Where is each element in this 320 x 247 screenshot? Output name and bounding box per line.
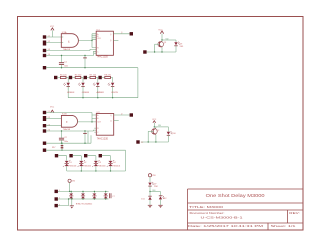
supply circle VDD column [148,174,156,183]
svg-text:PWR: PWR [154,186,159,188]
diode D10col [141,192,151,206]
svg-text:D11: D11 [141,198,144,200]
ground GND2 [83,130,87,143]
svg-text:74HC123D: 74HC123D [97,138,109,140]
connector pad X2-1 [43,111,46,114]
svg-text:Q: Q [110,34,112,36]
wire net C2 [46,125,61,127]
connector pad Y4 [99,154,102,157]
connector pad X1-3 [43,49,46,52]
connector pad X1-2 [43,41,46,46]
connector pad X2-6 [43,149,46,152]
junction [69,191,70,192]
svg-text:D9: D9 [180,44,182,46]
junction [154,51,155,52]
svg-text:C1: C1 [64,61,67,63]
svg-text:2.2: 2.2 [141,142,143,144]
supply VCC B [152,119,157,127]
resistor R6 [69,74,83,79]
wire net A2 [46,113,92,122]
svg-text:100n: 100n [64,141,68,143]
wire gate1 output [79,34,97,53]
resistor R5 [54,74,68,79]
LED D6 [78,78,89,99]
connector pad OUT1 [130,32,133,35]
svg-text:2: 2 [59,198,60,200]
and gate IC1B [61,114,77,131]
wire pad3 link [58,199,69,206]
svg-text:TITLE: M3000: TITLE: M3000 [189,205,223,209]
connector pad X2-2 [43,116,46,121]
IC U2 TLC555 [96,112,113,140]
svg-text:C7: C7 [112,196,114,198]
svg-text:Q: Q [110,40,112,42]
capacitor C1 [59,55,68,69]
svg-text:1.4: 1.4 [48,54,50,56]
svg-text:D7: D7 [154,184,156,186]
TVS D2 [73,156,91,172]
connector pad OUT2 [130,113,133,116]
svg-text:A: A [97,114,99,117]
TVS array cell 1 [69,191,73,199]
LED D3A [174,40,184,52]
supply VCC circuit1 [50,26,55,37]
LED D4B [167,127,176,142]
LED D8 [108,78,119,99]
svg-text:VCC: VCC [50,107,55,109]
svg-text:R: R [97,128,99,130]
connector pad Y2 [69,154,72,157]
svg-text:1.3: 1.3 [48,49,50,51]
svg-text:B: B [97,118,99,120]
svg-text:Q: Q [110,120,112,122]
svg-text:PGB10106: PGB10106 [98,165,106,167]
svg-text:AMBER: AMBER [97,91,105,94]
connector pad X1-4 [43,54,46,57]
TVS D3 [87,156,105,172]
connector pad X1-1 [43,35,46,38]
svg-text:VDD: VDD [152,175,156,177]
junction [91,40,92,41]
svg-text:2.2: 2.2 [48,117,50,119]
svg-text:N$2: N$2 [166,38,169,40]
svg-text:C2: C2 [64,137,67,139]
junction [149,191,150,192]
wire net B2 [46,118,61,120]
junction [161,39,162,40]
svg-text:74AC08: 74AC08 [63,48,71,51]
connector pad Z2 [55,197,58,200]
svg-text:&: & [68,40,70,43]
connector pad X2-5 [43,142,46,145]
junction [91,121,92,122]
connector pad X2-3 [43,124,46,127]
svg-text:Document Number:: Document Number: [190,211,225,215]
svg-text:8: 8 [66,121,68,124]
svg-text:D2: D2 [84,162,86,164]
wire IC2 down [88,131,91,143]
svg-text:WHITE: WHITE [111,92,118,94]
ground ESD [70,198,74,208]
svg-text:GREEN: GREEN [82,92,90,94]
transistor Q1 [155,40,167,52]
supply VCC A [158,30,163,40]
svg-text:CLR: CLR [97,38,101,40]
ground col left [148,205,152,208]
svg-text:2.3: 2.3 [48,124,50,126]
svg-text:C: C [97,51,99,53]
wire net GND long [46,67,138,69]
svg-text:D10: D10 [172,133,175,135]
junction [148,141,149,142]
resistor R17 link to rail [52,143,63,151]
svg-text:N$8: N$8 [152,190,155,192]
transistor Q2 [148,127,159,142]
svg-text:1: 1 [59,190,60,192]
TVS array cell 4 [104,191,108,200]
svg-text:Q1: Q1 [164,42,166,44]
wire IC1 stub [113,39,118,41]
svg-text:D4: D4 [113,162,115,164]
svg-text:D1: D1 [69,162,71,164]
capacitor C2 [59,130,68,144]
resistor R7 [84,74,98,79]
connector pad X1-5 [43,66,46,69]
TVS D4 [102,156,120,172]
junction [155,141,156,142]
connector pad Y3 [84,154,87,157]
wire row2 top rail [46,149,126,151]
svg-text:2.4: 2.4 [48,130,50,132]
connector pad Z3 [55,204,58,207]
wire A bottom [146,51,176,53]
svg-text:R: R [97,48,99,50]
wire IC1 output Q [113,33,131,35]
diode D11col [159,192,167,206]
title block outline [188,189,304,230]
wire B base drop [147,131,149,142]
wire IC2 stub [114,120,119,122]
wire net C [46,49,96,50]
connector pad A [143,50,146,53]
svg-text:CLR: CLR [97,122,101,124]
svg-text:REV:: REV: [289,211,300,215]
svg-text:74HC123D: 74HC123D [97,57,109,59]
svg-text:R17: R17 [52,147,55,149]
TVS D1 [58,156,76,171]
svg-text:1.1: 1.1 [48,36,50,38]
connector pad Y1 [55,154,58,157]
wire B top [154,126,168,128]
wire B bottom [141,141,168,143]
svg-text:N$4: N$4 [158,125,161,127]
resistor R8 [98,74,112,79]
drawing frame [18,17,304,231]
capacitor C7 [109,193,114,198]
wire column mid [150,191,161,193]
ground col right [158,205,162,208]
ground GND1 [83,55,87,68]
junction [84,143,85,144]
LED D7col [148,182,158,192]
LED D5 [63,78,74,94]
connector pad X2-4 [43,129,46,132]
svg-text:Sheet: 1/1: Sheet: 1/1 [271,224,297,228]
wire IC2 output Q [114,114,131,116]
and gate IC1A [61,31,78,51]
svg-text:100n: 100n [64,65,68,67]
wire net A [46,36,63,38]
wire net D2 [46,128,96,132]
supply circle ESD [68,179,75,191]
svg-text:D12: D12 [163,198,166,200]
svg-text:5V0: 5V0 [72,180,75,182]
wire ESD top rail [56,190,108,192]
wire A top [162,39,176,41]
supply VCC circuit2 [50,107,55,113]
wire A base drop [154,44,156,52]
svg-text:PGB10106: PGB10106 [83,165,91,167]
wire net B [46,42,63,44]
svg-text:74AC08: 74AC08 [63,128,71,131]
svg-text:GREEN: GREEN [67,92,75,94]
wire net D [46,51,96,55]
svg-text:RED: RED [180,46,184,48]
svg-text:1.2: 1.2 [48,41,50,43]
junction [68,198,69,199]
svg-text:ESD7C50BLI: ESD7C50BLI [76,203,93,205]
LED row enclosure wire [68,68,138,98]
TVS array cell 3 [92,191,96,200]
wire ESD bottom rail [58,198,109,200]
svg-text:U-CS-M3000-B-1: U-CS-M3000-B-1 [201,216,243,220]
connector pad Z1 [55,190,58,193]
junction [84,67,85,68]
svg-text:One Shot Delay M3000: One Shot Delay M3000 [206,193,266,198]
svg-text:C: C [97,132,99,134]
connector pad B [136,140,139,143]
svg-text:Date: 1/25/2017 10:41:31 PM: Date: 1/25/2017 10:41:31 PM [188,224,264,228]
LED D7 [93,78,104,99]
IC U1 74HC123 [96,29,113,58]
svg-text:D3: D3 [99,162,101,164]
wire gate2 output [77,115,96,122]
wire row2 bottom rail [67,150,126,171]
TVS array cell 2 [81,191,85,200]
svg-text:Q2: Q2 [157,130,159,132]
junction [154,126,155,127]
junction [161,51,162,52]
svg-text:PGB10106: PGB10106 [69,165,77,167]
svg-text:PGB10106: PGB10106 [112,165,120,167]
wire net GND2 long [46,142,91,144]
svg-text:Q: Q [110,115,112,117]
svg-text:2.1: 2.1 [48,111,50,113]
